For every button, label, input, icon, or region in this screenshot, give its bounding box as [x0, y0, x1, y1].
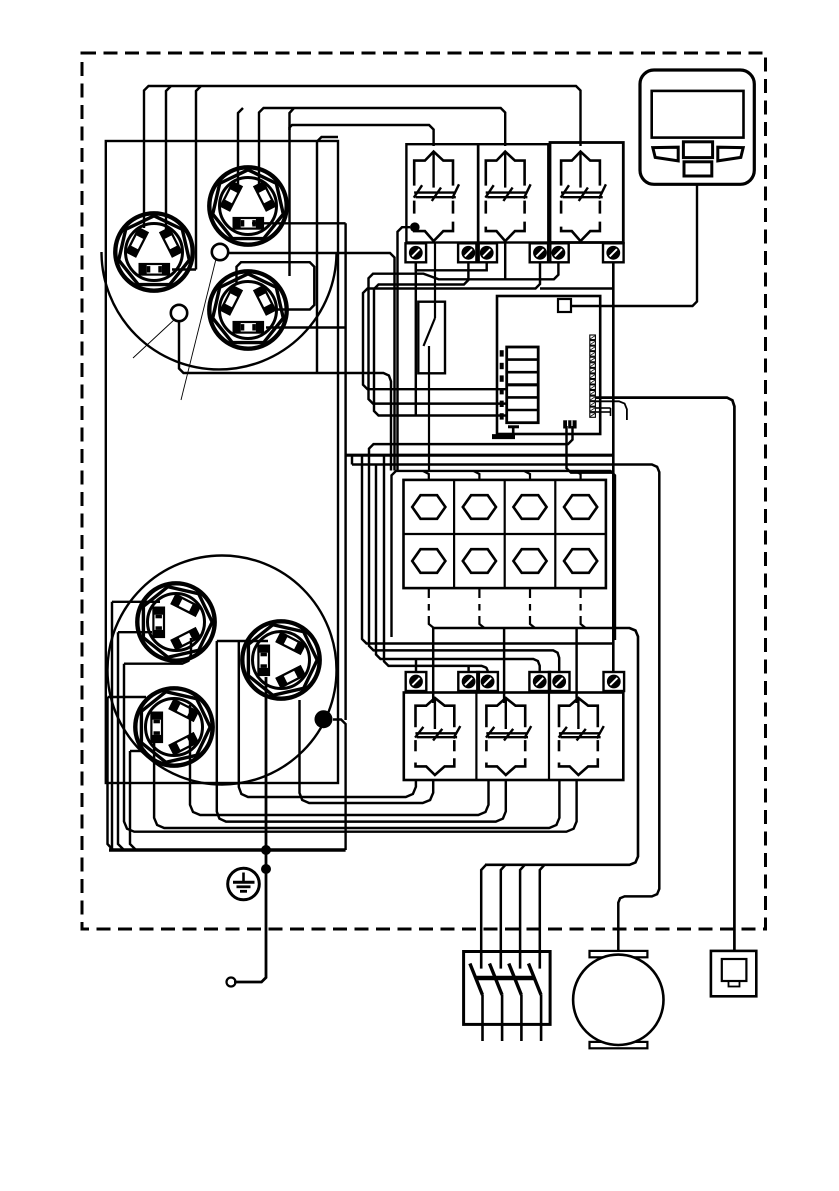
wire J4 in b — [118, 631, 152, 633]
wire Q2 tap 1 — [481, 865, 486, 952]
wire run 821 — [217, 641, 506, 822]
wire K2 apex feed — [504, 243, 506, 280]
terminal T12 — [604, 672, 625, 691]
cabinet enclosure box — [106, 141, 338, 783]
terminal T7 — [406, 672, 427, 691]
wire J1 slot L to bus — [144, 86, 581, 228]
contactor bank box — [404, 693, 624, 781]
wire T7 stub — [415, 659, 417, 672]
wire T4 east — [540, 287, 613, 289]
wire run 803 — [300, 700, 434, 803]
wire circle B run — [179, 321, 391, 471]
board connector CN1 — [558, 299, 571, 312]
wire black dot — [315, 710, 333, 728]
wire Q2 tap 4 — [540, 865, 545, 952]
terminal T2 — [458, 243, 479, 262]
wire J4 in a — [112, 601, 160, 603]
junction dot G2 — [261, 864, 271, 874]
display unit HMI — [640, 70, 754, 184]
contactor M3 symbol — [559, 698, 604, 775]
board terminal strip CN2 — [590, 335, 596, 417]
wire J3 slots loop — [237, 262, 315, 309]
wire J5 out gnd — [234, 677, 266, 982]
contactor M2 symbol — [486, 698, 531, 775]
open terminal — [227, 978, 236, 987]
breaker K1 box — [406, 144, 478, 242]
indicator circle A — [212, 244, 228, 260]
wire J6 in b — [130, 750, 146, 752]
TB1 bottom stubs — [429, 588, 586, 628]
wire feed M3 — [575, 628, 577, 703]
leader line A — [181, 259, 216, 400]
terminal T11 — [549, 672, 570, 691]
external breaker Q2 box — [464, 952, 550, 1025]
contactor K2 symbol — [485, 152, 530, 242]
wire Q2 tap 2 — [501, 865, 506, 952]
receptacle J3 — [209, 271, 286, 348]
terminal T9 — [477, 672, 498, 691]
terminal block outer box — [392, 471, 616, 640]
wire feed M2 — [503, 628, 505, 703]
wire bundle v3 — [118, 632, 124, 850]
terminal T5 — [548, 243, 569, 262]
terminal block TB1 — [404, 480, 606, 588]
breaker K3 box — [550, 143, 623, 243]
wire J5 top — [217, 640, 268, 642]
terminal T3 — [476, 243, 497, 262]
wire T8 stub — [467, 666, 469, 672]
disconnect switch Q1 box — [418, 302, 445, 374]
wire CN2 aux — [596, 401, 627, 420]
wire T4 route — [363, 262, 540, 389]
wire dot run — [333, 720, 346, 851]
wire CN2 to jack — [596, 398, 734, 951]
relay bank — [507, 347, 539, 423]
switch Q1 feed — [434, 242, 436, 318]
ground terminal PE — [228, 868, 260, 900]
wire CN2 stub1 — [596, 407, 611, 409]
wire CN3 b — [369, 426, 573, 672]
motor M body — [573, 955, 663, 1045]
wire J6 in a — [108, 696, 147, 698]
contactor K1 symbol — [414, 152, 459, 242]
wire T1-T3 link — [416, 262, 487, 270]
wire J1 bottom slot — [172, 86, 201, 270]
wire TB1 bus — [434, 628, 638, 865]
wire stub352 — [351, 455, 353, 464]
dashed panel border — [82, 53, 766, 929]
wire T6 down — [612, 262, 615, 672]
receptacle J6 — [135, 688, 212, 765]
switch Q1 blade — [424, 318, 436, 346]
receptacle J1 — [115, 213, 192, 290]
junction dot K1 — [410, 222, 420, 232]
wire J2 slot R to K2 — [259, 108, 505, 184]
relay bank cells — [502, 350, 539, 419]
wire K1 dot out — [398, 227, 411, 470]
terminal T6 — [603, 243, 624, 262]
bank divider 1 — [475, 693, 477, 781]
wire board edge bar — [492, 434, 515, 439]
contactor M1 symbol — [415, 698, 460, 775]
lower mounting circle — [108, 556, 337, 785]
switch Q1 out — [428, 346, 430, 471]
terminal T10 — [529, 672, 550, 691]
wire display cable — [571, 184, 697, 306]
bank divider 2 — [548, 693, 550, 781]
wire J4 return — [124, 638, 191, 664]
breaker K2 box — [478, 144, 548, 242]
wire Q2 tap 3 — [520, 865, 525, 952]
wire feed M1 — [432, 628, 434, 703]
wire J3 bottom out — [266, 326, 346, 328]
board ground tab — [508, 427, 519, 436]
wire run 831 — [124, 664, 577, 832]
breaker Q2 poles — [470, 952, 541, 1042]
wire K1 feed — [290, 108, 434, 276]
wire bundle v2 — [111, 602, 113, 850]
board aux terminals CN3 — [563, 420, 576, 428]
wire J1 slot R up — [166, 86, 171, 230]
TB1 top stubs — [423, 471, 581, 480]
wire bundle v4 — [130, 751, 136, 850]
wire neutral bus — [109, 848, 346, 851]
receptacle J4 — [137, 583, 214, 660]
wire circle A run — [228, 253, 395, 471]
indicator circle B — [171, 305, 187, 321]
remote jack J7 — [711, 951, 756, 996]
wire stub x317 — [317, 137, 338, 373]
wire long x345 — [344, 223, 346, 720]
receptacle J2 — [209, 167, 286, 244]
wire T5 route — [369, 262, 559, 404]
wire board c — [362, 455, 614, 643]
wire board e — [376, 465, 540, 673]
wire thick bus — [346, 454, 615, 457]
terminal T8 — [458, 672, 479, 691]
receptacle J5 — [242, 621, 319, 698]
control board A1 outline — [497, 296, 600, 434]
wire T1 down — [415, 262, 417, 416]
wire CN3 a — [567, 426, 614, 473]
terminal T1 — [406, 243, 427, 262]
motor M tabs — [590, 951, 648, 1048]
wire run 815 — [190, 705, 489, 815]
wire board d — [384, 455, 488, 672]
junction dot G1 — [261, 845, 271, 855]
terminal T4 — [530, 243, 551, 262]
wire bundle v1 — [108, 697, 114, 850]
contactor K3 symbol — [561, 152, 606, 242]
wire motor run — [352, 465, 659, 952]
wire J2 slot L up — [238, 108, 243, 184]
wire J2 bottom slot — [252, 222, 346, 224]
wire run 828 — [154, 740, 559, 828]
upper mounting half-circle — [102, 252, 337, 369]
leader line B — [133, 319, 175, 358]
wire T2 route — [374, 262, 506, 416]
wire CN2 stub2 — [596, 408, 611, 416]
wire run 797 — [239, 641, 416, 797]
